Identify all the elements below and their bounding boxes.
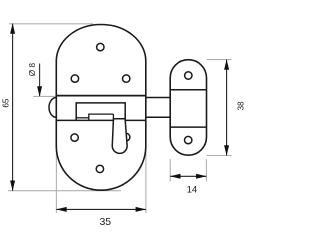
screw hole mid right — [123, 75, 130, 82]
keeper hole top — [185, 72, 192, 79]
arrow down 65 — [10, 181, 15, 192]
dimension line 38 — [226, 60, 228, 156]
arrow right 35 — [136, 207, 147, 212]
extension line bottom (38 dim) — [207, 155, 232, 157]
bridge cover rectangle — [76, 103, 125, 121]
leader line diameter 8 — [39, 64, 41, 97]
extension line left (35 dim) — [55, 150, 57, 213]
extension line left (14 dim) — [169, 159, 171, 182]
arrow down 38 — [224, 145, 229, 156]
back plate outline — [56, 24, 146, 190]
extension line for diameter 8 leader — [33, 95, 56, 97]
extension line top (65 dim) — [9, 23, 93, 25]
screw hole bottom center — [96, 165, 103, 172]
keeper staple outline — [170, 60, 206, 156]
extension line bottom (65 dim) — [8, 190, 121, 192]
screw hole bottom-right (behind knob) — [123, 133, 130, 140]
arrow right 14 — [196, 174, 207, 179]
dimension line 14 — [170, 175, 206, 177]
svg-text:Ø 8: Ø 8 — [28, 63, 37, 77]
housing band bottom line — [56, 119, 146, 121]
extension line top (38 dim) — [207, 59, 232, 61]
screw hole bottom left — [71, 134, 78, 141]
keeper hole bottom — [185, 136, 192, 143]
slider base step — [89, 114, 114, 120]
dimension line 35 — [56, 208, 145, 210]
svg-text:65: 65 — [1, 98, 10, 108]
rod bottom line left segment — [76, 117, 89, 119]
arrow left 35 — [56, 207, 66, 212]
svg-text:38: 38 — [236, 101, 245, 111]
screw hole top center — [97, 43, 104, 50]
extension line right (35 dim) — [145, 149, 147, 213]
bolt bar between plate and keeper top line — [146, 97, 170, 99]
knob — [112, 119, 127, 154]
svg-text:14: 14 — [187, 184, 198, 195]
screw hole mid left — [71, 75, 78, 82]
keeper band top line — [170, 89, 206, 91]
keeper band bottom line — [170, 126, 206, 128]
dimension line 65 — [12, 24, 14, 191]
svg-text:35: 35 — [99, 216, 111, 228]
arrow left 14 — [170, 174, 181, 179]
slider base right edge — [112, 114, 114, 119]
bolt bar between plate and keeper bottom line — [146, 116, 170, 118]
extension line right (14 dim) — [205, 159, 207, 182]
housing band top line — [56, 95, 146, 97]
leader arrow diameter 8 — [37, 86, 42, 97]
bolt rod end bump left of plate — [49, 98, 56, 118]
arrow up 38 — [224, 59, 229, 70]
arrow up 65 — [10, 23, 15, 34]
